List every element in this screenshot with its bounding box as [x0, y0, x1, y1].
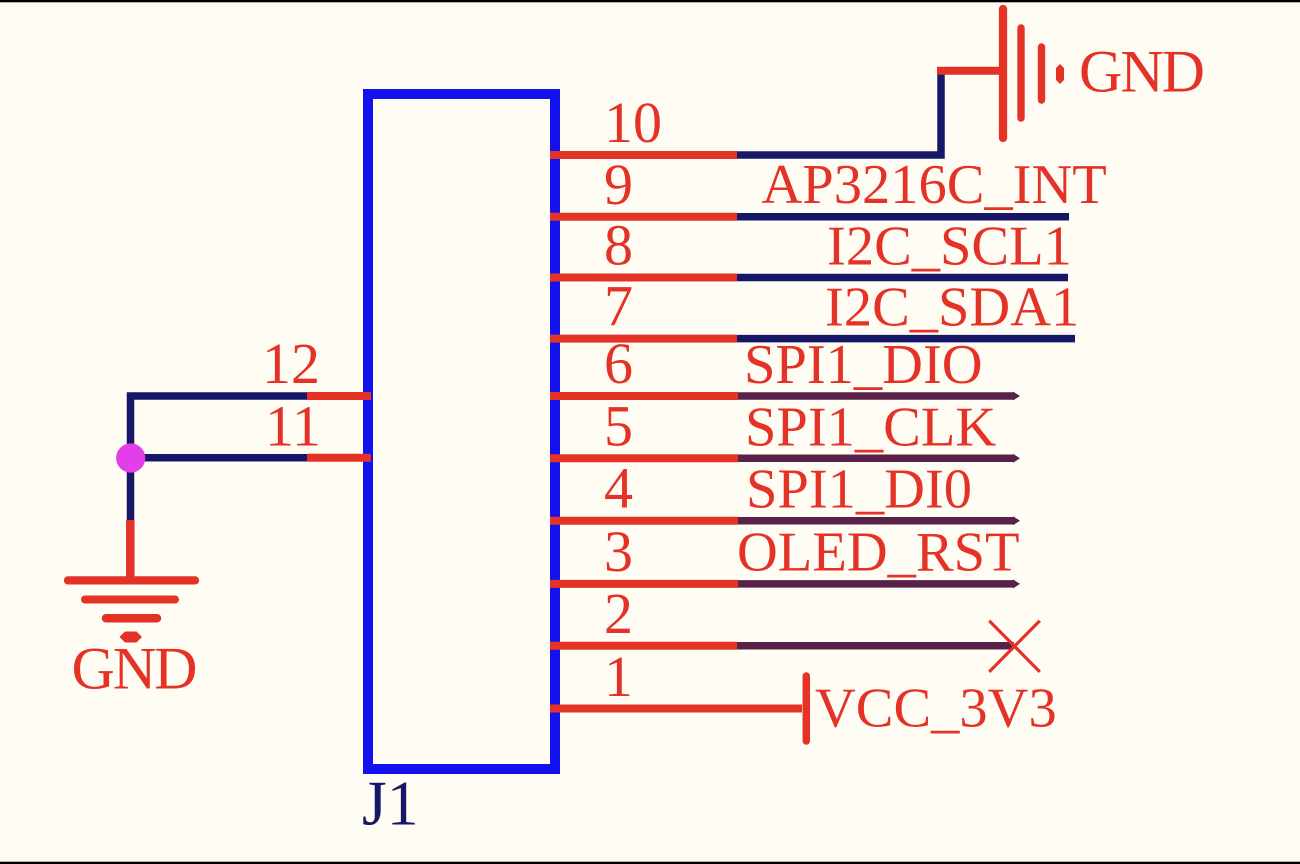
svg-text:12: 12 [262, 331, 320, 396]
svg-text:SPI1_DI0: SPI1_DI0 [746, 459, 972, 521]
svg-text:SPI1_DIO: SPI1_DIO [744, 334, 983, 396]
svg-text:GND: GND [72, 636, 196, 702]
svg-text:VCC_3V3: VCC_3V3 [815, 678, 1057, 740]
svg-text:9: 9 [604, 152, 633, 217]
svg-text:OLED_RST: OLED_RST [737, 522, 1020, 584]
svg-text:GND: GND [1079, 39, 1203, 105]
svg-text:AP3216C_INT: AP3216C_INT [762, 154, 1107, 216]
svg-text:SPI1_CLK: SPI1_CLK [745, 396, 996, 458]
svg-text:4: 4 [604, 456, 633, 521]
svg-text:2: 2 [604, 581, 633, 646]
svg-text:6: 6 [604, 331, 633, 396]
svg-text:1: 1 [604, 644, 633, 709]
svg-text:7: 7 [604, 274, 633, 339]
svg-text:I2C_SDA1: I2C_SDA1 [825, 276, 1079, 338]
svg-text:I2C_SCL1: I2C_SCL1 [827, 216, 1072, 278]
svg-text:3: 3 [604, 519, 633, 584]
svg-text:10: 10 [604, 90, 662, 155]
svg-text:8: 8 [604, 213, 633, 278]
svg-text:5: 5 [604, 393, 633, 458]
svg-text:11: 11 [265, 393, 321, 458]
svg-text:J1: J1 [362, 768, 418, 839]
